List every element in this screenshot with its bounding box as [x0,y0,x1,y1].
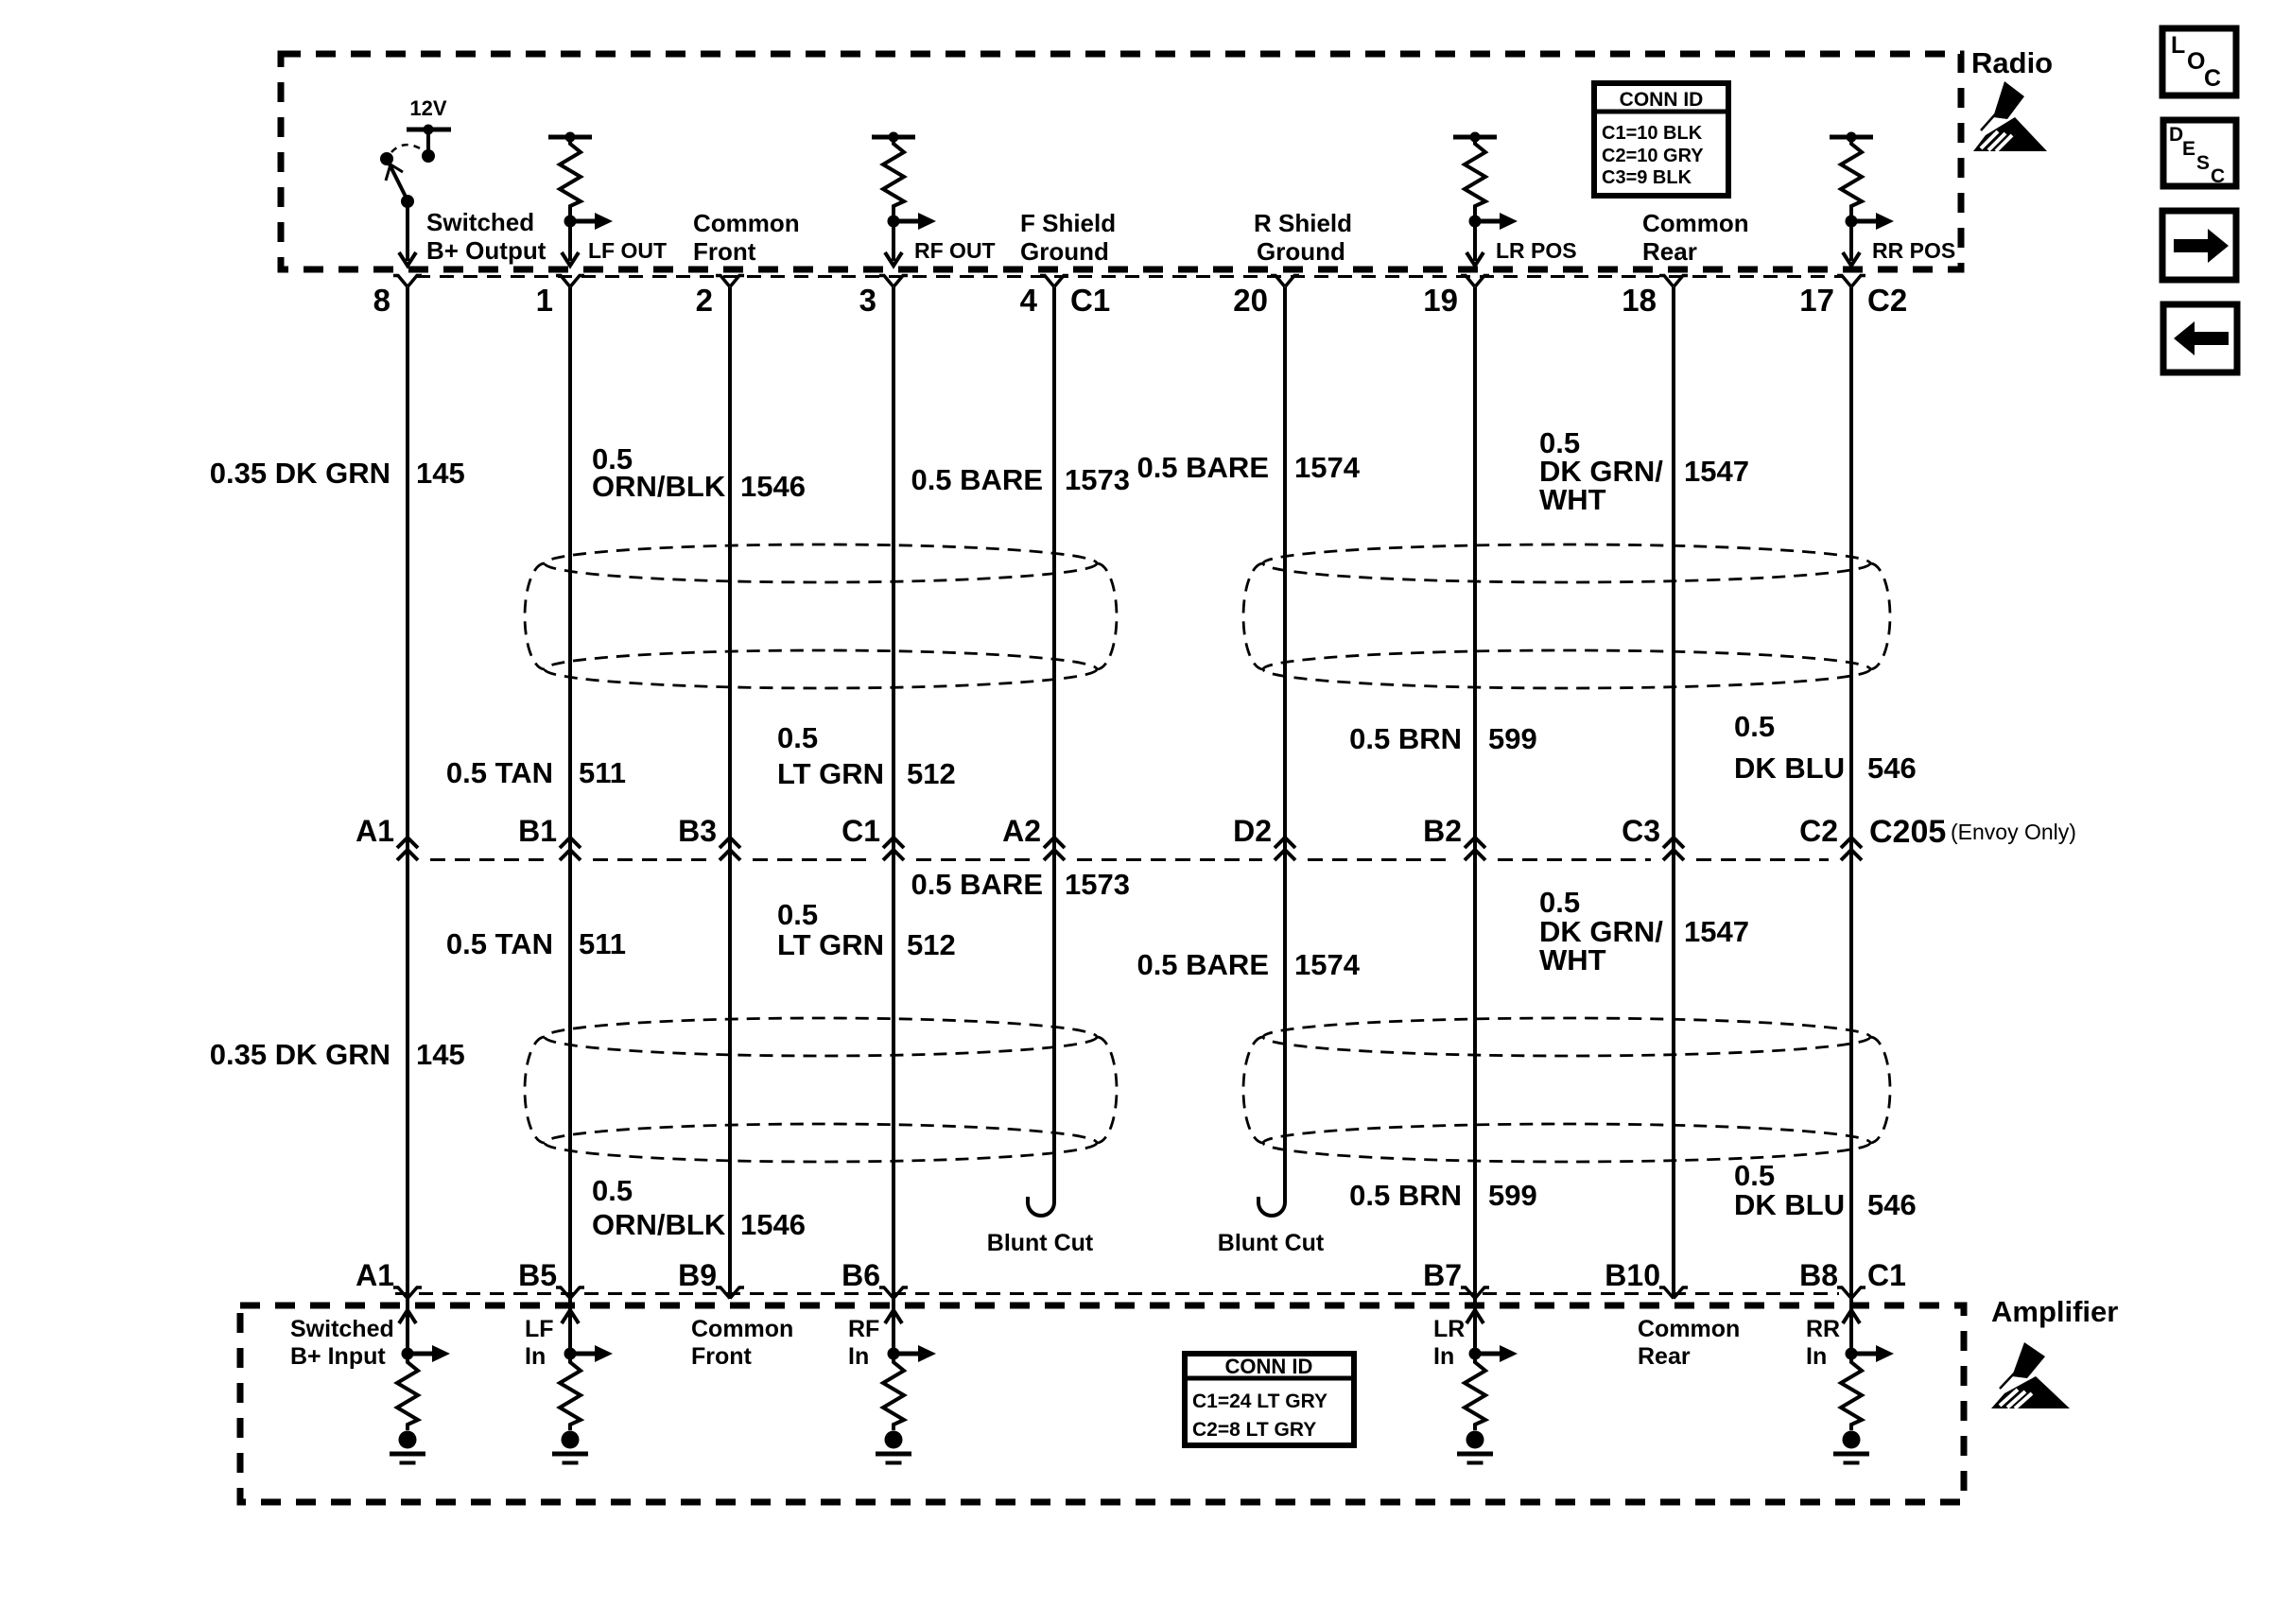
svg-text:R Shield: R Shield [1254,209,1352,237]
svg-text:C3: C3 [1622,814,1660,848]
amplifier input coil and ground - LR in [1457,1299,1518,1463]
wire 0.5 DK GRN/WHT 1547 (common rear) [1672,287,1675,1299]
svg-text:0.5 BARE: 0.5 BARE [911,868,1043,901]
rear shield cylinder (lower) [1243,1018,1890,1162]
amplifier connector cavity B10 Y symbol [1659,1287,1688,1299]
svg-text:LF OUT: LF OUT [588,238,667,263]
svg-text:1547: 1547 [1684,455,1749,488]
label 0.5 LT GRN (upper) [777,721,884,790]
svg-text:D: D [2169,124,2183,146]
svg-text:Blunt Cut: Blunt Cut [1218,1230,1325,1256]
svg-text:18: 18 [1622,283,1657,318]
svg-text:599: 599 [1488,722,1537,755]
svg-text:DK BLU: DK BLU [1734,752,1845,785]
amplifier input coil and ground - switched B+ input [390,1299,450,1463]
amplifier input coil and ground - LF in [552,1299,613,1463]
radio speaker driver coil RF OUT [872,132,936,267]
svg-text:B1: B1 [518,814,557,848]
radio connector pin 18 Y symbol [1659,276,1688,287]
radio connector pin 1 Y symbol [556,276,584,287]
label 0.5 ORN/BLK (upper) [592,442,726,503]
svg-text:145: 145 [416,1038,465,1071]
radio connector pin 19 Y symbol [1461,276,1489,287]
svg-text:Rear: Rear [1638,1343,1691,1370]
svg-text:In: In [1806,1343,1827,1370]
svg-text:Blunt Cut: Blunt Cut [987,1230,1094,1256]
label LR in [1433,1316,1465,1370]
amplifier connector cavity B6 Y symbol [879,1287,908,1299]
amplifier CONN ID table [1185,1354,1354,1445]
svg-text:512: 512 [907,757,956,790]
svg-text:0.5: 0.5 [1539,886,1580,919]
svg-text:E: E [2182,138,2195,160]
C205 connector chevrons at cavity C3 [1663,838,1684,860]
label R shield ground (radio) [1254,209,1352,266]
svg-text:511: 511 [579,927,626,960]
svg-text:RF: RF [848,1316,879,1342]
svg-text:CONN ID: CONN ID [1225,1355,1313,1378]
svg-text:0.5 BRN: 0.5 BRN [1349,1179,1462,1212]
svg-text:S: S [2196,152,2210,174]
C205 connector chevrons at cavity A1 [397,838,418,860]
svg-text:B+ Output: B+ Output [426,236,547,265]
svg-text:C1: C1 [1070,283,1110,318]
label RR in [1806,1316,1840,1370]
amplifier input coil and ground - RF in [876,1299,936,1463]
svg-text:RR: RR [1806,1316,1840,1342]
wire 0.5 TAN 511 (LF) [568,287,572,1299]
label RF in [848,1316,879,1370]
wire 0.5 ORN/BLK 1546 (common front) [728,287,732,1299]
svg-text:A1: A1 [356,814,394,848]
svg-text:3: 3 [859,283,876,318]
radio ESD sensitive symbol [1973,81,2047,151]
wire 0.5 BRN 599 (LR) [1473,287,1477,1299]
svg-text:2: 2 [696,283,713,318]
svg-text:O: O [2187,48,2205,75]
svg-text:In: In [1433,1343,1454,1370]
C205 connector chevrons at cavity D2 [1275,838,1295,860]
C205 connector chevrons at cavity B3 [720,838,740,860]
svg-text:0.5: 0.5 [777,898,818,931]
svg-text:LT GRN: LT GRN [777,757,884,790]
svg-text:LF: LF [525,1316,554,1342]
svg-text:512: 512 [907,928,956,961]
svg-text:C1: C1 [842,814,880,848]
label LF in [525,1316,554,1370]
wire 0.5 BARE 1573 (F shield drain) [1028,287,1054,1216]
svg-text:C2: C2 [1799,814,1838,848]
svg-text:B6: B6 [842,1258,880,1292]
in-line connector C205 dashed line [430,858,1829,861]
svg-text:B9: B9 [678,1258,717,1292]
radio speaker driver coil LR POS [1453,132,1518,267]
front shield cylinder (lower) [525,1018,1117,1162]
amplifier input coil and ground - RR in [1833,1299,1894,1463]
radio CONN ID table [1594,83,1728,196]
label common rear (amplifier) [1638,1316,1740,1370]
svg-text:RF OUT: RF OUT [914,238,996,263]
amplifier harness connector dashed line [395,1292,1839,1295]
back arrow legend box [2163,304,2237,372]
svg-text:1574: 1574 [1294,451,1361,484]
svg-text:0.5 BARE: 0.5 BARE [1136,948,1269,981]
svg-text:C: C [2204,65,2221,92]
label common front (radio) [693,209,800,266]
svg-text:In: In [848,1343,869,1370]
C205 connector chevrons at cavity C1 [883,838,904,860]
svg-text:LR POS: LR POS [1496,238,1577,263]
svg-text:B3: B3 [678,814,717,848]
svg-text:LT GRN: LT GRN [777,928,884,961]
svg-text:599: 599 [1488,1179,1537,1212]
svg-text:Common: Common [1638,1316,1740,1342]
svg-text:C205: C205 [1869,814,1946,850]
svg-text:Switched: Switched [426,208,534,236]
svg-text:0.5: 0.5 [777,721,818,754]
svg-text:WHT: WHT [1539,483,1606,516]
C205 connector chevrons at cavity B2 [1465,838,1485,860]
svg-text:L: L [2171,32,2185,59]
svg-text:546: 546 [1867,1188,1917,1221]
radio connector pin 3 Y symbol [879,276,908,287]
svg-text:1546: 1546 [740,470,806,503]
svg-text:8: 8 [373,283,390,318]
svg-text:RR POS: RR POS [1872,238,1955,263]
label common front (amplifier) [691,1316,793,1370]
svg-text:Rear: Rear [1642,237,1697,266]
svg-text:CONN ID: CONN ID [1620,89,1704,111]
svg-text:C3=9 BLK: C3=9 BLK [1602,167,1692,188]
DESC legend box [2163,120,2236,187]
C205 connector chevrons at cavity B1 [560,838,581,860]
forward arrow legend box [2162,211,2236,280]
svg-text:C1=24 LT GRY: C1=24 LT GRY [1192,1391,1327,1412]
svg-text:LR: LR [1433,1316,1465,1342]
svg-text:C2=8 LT GRY: C2=8 LT GRY [1192,1419,1316,1441]
svg-text:In: In [525,1343,546,1370]
amplifier connector cavity B8 Y symbol [1837,1287,1865,1299]
svg-text:0.5: 0.5 [1734,710,1775,743]
switch SW (radio on/off) [380,145,422,208]
svg-text:0.5 TAN: 0.5 TAN [446,756,553,789]
svg-text:1574: 1574 [1294,948,1361,981]
svg-text:Radio: Radio [1971,46,2053,79]
wire 0.5 DK BLU 546 (RR) [1849,287,1853,1299]
svg-text:1547: 1547 [1684,915,1749,948]
label 0.5 ORN/BLK (lower) [592,1174,726,1241]
svg-text:0.5 BARE: 0.5 BARE [1136,451,1269,484]
radio connector pin 20 Y symbol [1271,276,1299,287]
svg-text:0.35 DK GRN: 0.35 DK GRN [210,457,390,490]
radio connector pin 8 Y symbol [393,276,422,287]
svg-text:0.35 DK GRN: 0.35 DK GRN [210,1038,390,1071]
svg-text:0.5: 0.5 [1734,1159,1775,1192]
svg-text:511: 511 [579,756,626,789]
wire 0.5 LT GRN 512 (RF) [892,287,895,1299]
svg-text:C1=10 BLK: C1=10 BLK [1602,123,1703,144]
svg-text:0.5 BRN: 0.5 BRN [1349,722,1462,755]
svg-text:ORN/BLK: ORN/BLK [592,470,726,503]
radio connector pin 2 Y symbol [716,276,744,287]
label switched B+ output [426,208,547,265]
svg-text:19: 19 [1423,283,1458,318]
radio speaker driver coil RR POS [1830,132,1894,267]
svg-text:12V: 12V [409,96,446,120]
amplifier connector cavity B5 Y symbol [556,1287,584,1299]
label switched B+ input [290,1316,394,1370]
svg-text:C: C [2211,165,2225,187]
C205 connector chevrons at cavity C2 [1841,838,1862,860]
svg-text:WHT: WHT [1539,943,1606,976]
svg-text:A1: A1 [356,1258,394,1292]
svg-text:0.5 TAN: 0.5 TAN [446,927,553,960]
svg-text:B10: B10 [1605,1258,1660,1292]
wire 0.35 DK GRN 145 (switched B+) [406,287,409,1299]
svg-text:1546: 1546 [740,1208,806,1241]
12V supply symbol [407,96,451,163]
svg-text:1: 1 [536,283,553,318]
svg-text:0.5 BARE: 0.5 BARE [911,463,1043,496]
svg-text:B+ Input: B+ Input [290,1343,386,1370]
svg-text:Common: Common [1642,209,1749,237]
amplifier connector cavity B9 Y symbol [716,1287,744,1299]
svg-text:F Shield: F Shield [1020,209,1116,237]
svg-text:Common: Common [691,1316,793,1342]
label F shield ground (radio) [1020,209,1116,266]
amplifier connector cavity A1 Y symbol [393,1287,422,1299]
svg-text:B7: B7 [1423,1258,1462,1292]
svg-text:Front: Front [691,1343,753,1370]
label 0.5 DK GRN/WHT (lower) [1539,886,1663,976]
amplifier connector cavity B7 Y symbol [1461,1287,1489,1299]
C205 connector chevrons at cavity A2 [1044,838,1065,860]
svg-text:A2: A2 [1002,814,1041,848]
radio module dashed box [281,54,1961,269]
svg-text:DK BLU: DK BLU [1734,1188,1845,1221]
label common rear (radio) [1642,209,1749,266]
radio connector pin 4 Y symbol [1040,276,1068,287]
svg-text:(Envoy Only): (Envoy Only) [1951,820,2076,844]
svg-text:145: 145 [416,457,465,490]
wire switched B+ output to pin 8 [399,201,416,266]
svg-text:Front: Front [693,237,756,266]
svg-text:4: 4 [1020,283,1038,318]
label 0.5 DK BLU (upper) [1734,710,1845,785]
svg-text:B2: B2 [1423,814,1462,848]
rear shield cylinder (upper) [1243,544,1890,688]
radio connector pin 17 Y symbol [1837,276,1865,287]
svg-text:0.5: 0.5 [592,1174,633,1207]
amplifier ESD sensitive symbol [1991,1342,2070,1408]
svg-text:Amplifier: Amplifier [1991,1295,2118,1328]
svg-text:17: 17 [1799,283,1834,318]
wire 0.5 BARE 1574 (R shield drain) [1258,287,1285,1216]
amplifier module dashed box [240,1305,1964,1502]
svg-text:Common: Common [693,209,800,237]
label 0.5 DK BLU (lower) [1734,1159,1845,1221]
radio harness connector dashed line [416,275,1844,278]
svg-text:D2: D2 [1233,814,1272,848]
LOC legend box [2162,28,2236,95]
label 0.5 DK GRN/WHT (upper) [1539,426,1663,516]
svg-text:B5: B5 [518,1258,557,1292]
svg-text:C1: C1 [1867,1258,1906,1292]
svg-text:Ground: Ground [1020,237,1109,266]
label 0.5 LT GRN (lower) [777,898,884,961]
svg-text:Switched: Switched [290,1316,394,1342]
svg-text:1573: 1573 [1065,463,1130,496]
svg-text:1573: 1573 [1065,868,1130,901]
radio speaker driver coil LF OUT [548,132,613,267]
svg-text:20: 20 [1233,283,1268,318]
svg-text:B8: B8 [1799,1258,1838,1292]
svg-text:ORN/BLK: ORN/BLK [592,1208,726,1241]
svg-text:C2: C2 [1867,283,1907,318]
front shield cylinder (upper) [525,544,1117,688]
svg-text:Ground: Ground [1257,237,1345,266]
svg-text:C2=10 GRY: C2=10 GRY [1602,146,1704,166]
svg-text:546: 546 [1867,752,1917,785]
